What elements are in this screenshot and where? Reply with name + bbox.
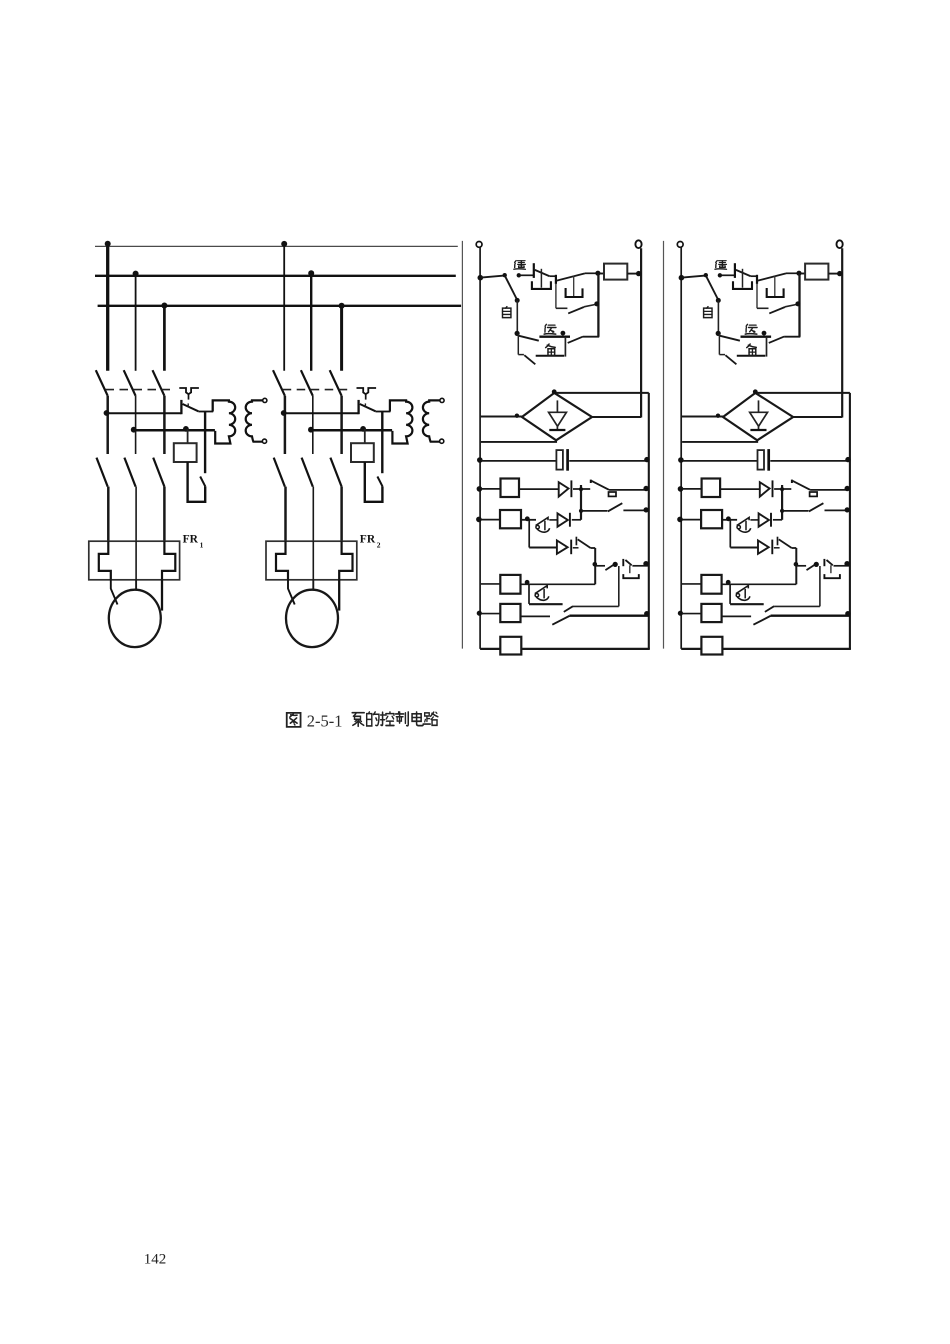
terminal ctrl2 left: [677, 242, 683, 248]
wire horn branch2 out: [774, 605, 820, 607]
button SB2-1 cup: [566, 288, 583, 297]
node cap1 left dot: [477, 457, 483, 463]
button SB3-1 blade: [625, 560, 631, 565]
wire ctrl2 bus595: [795, 548, 797, 584]
operator handle T1 stem: [188, 394, 190, 399]
node row3 ctrl2 right dot: [845, 507, 850, 512]
label caption 电: [412, 712, 423, 726]
button SB1-1 post: [533, 263, 535, 278]
node bus595-2 dot: [794, 562, 799, 567]
wire phase 1 drop to QF2: [283, 246, 285, 370]
wire row5 ctrl2 a: [730, 547, 758, 549]
breaker QF2 linkage dashed: [283, 389, 353, 391]
node ctrl1 coil-in dot: [595, 271, 600, 276]
contactor KM1 pole 1 blade: [97, 458, 108, 487]
wire seal branch2 across: [757, 307, 769, 309]
wire row5 ctrl2 b: [774, 547, 780, 549]
label caption 图: [287, 713, 301, 727]
button SB2-2 cup: [767, 288, 784, 297]
wire ctrl1 to selector: [481, 276, 504, 278]
button SB1-1 blade: [535, 270, 550, 276]
operator handle T1 symbol: [179, 388, 199, 394]
wire row5 ctrl2 down: [729, 520, 731, 548]
contact S2 link tick: [364, 403, 366, 407]
node row6 ctrl1 mid dot: [613, 562, 618, 567]
contact S1 post: [180, 400, 182, 414]
wire motor M2 lead 2: [312, 580, 314, 590]
contact K4-1 blade: [605, 564, 614, 570]
horn HA2-2 body: [736, 586, 748, 594]
wire motor M1 lead 3: [161, 580, 163, 611]
wire row2 ctrl2 b: [720, 488, 760, 490]
contact standby1 bar: [536, 355, 565, 357]
svg-text:FR: FR: [360, 534, 376, 546]
breaker QF1 pole 1 blade: [96, 370, 108, 396]
breaker QF2 pole 2 blade: [301, 370, 313, 396]
wire standby1 down: [517, 334, 519, 355]
button SB1-2 post: [734, 263, 736, 278]
wire selector1 out: [583, 336, 599, 338]
node row2 ctrl2 right dot: [845, 486, 850, 491]
node horn branch2 dot: [726, 580, 731, 585]
wire row3 ctrl2 b: [825, 509, 850, 511]
relay KA4-2 box: [701, 604, 721, 622]
diode VD2-1 triangle: [558, 513, 568, 526]
node ctrl2 rail tap dot: [679, 275, 685, 281]
node row2-2 dot A: [308, 427, 314, 433]
horn HA1-1 mouth curve: [537, 528, 550, 532]
relay FR2 box: [266, 541, 357, 580]
wire seal branch2 down: [756, 284, 758, 308]
transformer T2 primary winding: [390, 400, 412, 443]
node L1-M1 junction dot: [105, 241, 111, 247]
wire ctrl2 right rail lower: [849, 393, 851, 649]
motor M1 circle: [109, 590, 161, 647]
wire row7 ctrl2 a: [682, 613, 701, 615]
wire motor M2 lead 3: [338, 580, 340, 611]
wire row5 ctrl1 a: [529, 547, 557, 549]
svg-text:2: 2: [377, 541, 381, 550]
diode VD2-2 triangle: [759, 513, 769, 526]
label ctrl1 remote 遥: [514, 261, 525, 270]
diode VD3-2 cathode bar: [771, 540, 773, 555]
wire standby2 down: [718, 334, 720, 355]
horn HA2-2 tip circle: [736, 594, 739, 597]
diode VD2-2 cathode bar: [770, 513, 772, 527]
wire motor M1 lead 2: [135, 580, 137, 590]
node cap1 right dot: [644, 457, 649, 462]
label caption 的: [367, 712, 379, 726]
horn HA1-1 diaphragm: [544, 521, 546, 531]
wire row2 ctrl2 d: [810, 489, 849, 491]
wire SB2-2 out: [786, 272, 799, 274]
coil K2 box: [805, 264, 828, 280]
wire horn branch1 across: [529, 603, 563, 605]
wire ctrl2 bus581: [781, 485, 783, 520]
wire seal branch1 to node: [584, 304, 597, 307]
wire horn branch2 down: [729, 584, 731, 604]
wire selector2 join vertical: [766, 338, 768, 357]
contact K4-2 blade: [807, 564, 816, 570]
node row2 ctrl1 right dot: [643, 486, 648, 491]
wire rect2 right to rail: [793, 416, 842, 418]
svg-text:1: 1: [200, 541, 204, 550]
node row2 ctrl1 left dot: [477, 486, 483, 492]
node row7 ctrl1 left dot: [477, 611, 482, 616]
wire ctrl1 left rail: [479, 247, 481, 649]
relay KA1-2 box: [702, 479, 721, 498]
wire ctrl1 to relay coil: [600, 273, 604, 275]
wire KM1 coil lead: [187, 429, 189, 443]
wire S1 output: [198, 411, 213, 413]
coil KM1 box: [174, 443, 197, 462]
node row2-1 dot B: [183, 426, 189, 432]
node row4 ctrl1 tap dot: [525, 516, 530, 521]
button SB1-1 cup: [532, 281, 551, 289]
node row6 ctrl2 mid dot: [814, 562, 819, 567]
node ctrl2 remote contact dot: [718, 273, 722, 277]
wire KM2 coil lead: [364, 429, 366, 443]
capacitor C2 plate+: [758, 450, 765, 470]
terminal ctrl1 right: [635, 240, 641, 248]
wire L3 phase bus: [98, 305, 462, 307]
capacitor C1 plate-: [566, 449, 569, 471]
node row6 ctrl2 right dot: [844, 561, 849, 566]
button SB3-2 stem: [830, 565, 832, 573]
node cap2 right dot: [845, 457, 850, 462]
wire row8 ctrl2 b: [722, 648, 851, 650]
contactor KM2 pole 2 blade: [302, 458, 313, 487]
diode VD2-1 cathode bar: [569, 513, 571, 527]
contact SL1-2 float box: [810, 492, 818, 496]
wire horn branch2 across: [730, 603, 764, 605]
contact S2 post: [357, 400, 359, 414]
wire to T1 primary top: [212, 400, 214, 411]
diode VD1-2 triangle: [760, 482, 770, 496]
node row4 ctrl2 left dot: [677, 517, 683, 523]
node rect2 left dot: [716, 414, 720, 418]
diode VC2 anode line: [758, 400, 760, 429]
node row4 ctrl2 tap dot: [726, 516, 731, 521]
wire rect2 bottom out: [682, 440, 757, 442]
node ctrl2 selector pivot: [704, 273, 708, 277]
svg-text:2-5-1: 2-5-1: [307, 711, 343, 730]
node selector1 branch dot: [515, 331, 520, 336]
wire row7 ctrl1 b: [521, 615, 551, 617]
terminal T1 secondary b: [262, 439, 266, 443]
wire S2 down lead: [381, 412, 383, 474]
horn HA2-1 tip circle: [535, 594, 538, 597]
wire row2 ctrl1 c: [573, 488, 590, 490]
diode VC2 cathode bar: [750, 429, 766, 431]
diode VD3-1 triangle: [557, 541, 568, 554]
wire seal branch1 across: [556, 307, 568, 309]
wire selector2 auto vertical: [717, 300, 719, 333]
terminal T2 secondary a: [440, 398, 444, 402]
wire row5 ctrl1 b: [573, 547, 579, 549]
contact K5-1 blade: [564, 606, 573, 612]
wire row3 ctrl1 b: [623, 509, 648, 511]
wire ctrl2 right rail upper: [841, 248, 843, 417]
wire SB2-1 out: [585, 272, 598, 274]
wire ctrl1 right rail lower: [648, 393, 650, 649]
contact K3-1 post: [575, 537, 577, 546]
contactor KM1 pole 3 blade: [153, 458, 164, 487]
wire row4 ctrl1 a: [481, 519, 500, 521]
wire ctrl2 to selector: [682, 276, 705, 278]
wire row4 ctrl1 c: [549, 519, 557, 521]
wire standby1 elbow: [518, 354, 524, 356]
wire row5 ctrl1 down: [528, 520, 530, 548]
wire phase 2 drop to QF1: [135, 276, 137, 371]
node L2-M1 junction dot: [133, 271, 139, 277]
wire KM2 pole 3 to FR: [340, 487, 343, 542]
wire row8 ctrl1 a: [480, 648, 500, 650]
node ctrl2 selector auto dot: [716, 298, 721, 303]
coil KM2 box: [351, 443, 374, 462]
horn HA1-1 tip circle: [536, 525, 539, 528]
diode VD3-1 cathode bar: [570, 540, 572, 555]
contact SL1-1 post: [590, 480, 592, 483]
horn HA2-1 diaphragm: [543, 589, 545, 599]
rectifier VC1 diamond: [522, 393, 592, 440]
wire rect1 right to rail: [592, 416, 641, 418]
node bus581-2 mid dot: [780, 509, 784, 513]
relay FR2 heater 2: [312, 541, 314, 580]
wire row4 ctrl2 b: [722, 519, 737, 521]
relay KA5-1 box: [500, 637, 521, 655]
wire ctrl1 node B vertical: [597, 273, 599, 337]
wire horn branch1 down: [528, 584, 530, 604]
relay KA5-2 box: [701, 637, 722, 655]
wire KM1 coil return: [188, 462, 206, 502]
node row7 ctrl2 left dot: [678, 611, 683, 616]
relay FR1 heater 3: [162, 541, 175, 580]
node selector2 branch dot: [716, 331, 721, 336]
wire phase 3 drop to QF2: [340, 306, 343, 371]
wire rect2 left feed: [682, 416, 723, 418]
diode VC2 triangle: [750, 412, 768, 426]
wire L1 phase bus: [95, 245, 458, 247]
wire QF2 pole 1 lower: [284, 396, 287, 454]
label ctrl1 standby 备: [546, 344, 556, 355]
diode VD1-1 cathode bar: [570, 480, 572, 497]
relay FR1 heater 1: [99, 541, 111, 580]
contact K6-2 blade: [753, 616, 770, 625]
wire KM2 pole 2 to FR: [312, 487, 314, 542]
wire row1-1: [107, 412, 181, 414]
relay KA2-1 box: [500, 510, 521, 528]
wire seal branch2 to node: [785, 304, 798, 307]
button SB1-2 blade: [736, 270, 751, 276]
wire cap2 row left: [682, 460, 757, 462]
button SB3-1 post: [622, 559, 624, 566]
node seal2 dot: [795, 301, 800, 306]
wire cap1 row right: [569, 460, 648, 462]
svg-text:FR: FR: [183, 534, 199, 546]
wire to T2 primary top: [389, 400, 391, 411]
node run1 dot: [561, 331, 566, 336]
contact K2 seal blade: [769, 307, 785, 313]
wire row1-2: [284, 412, 358, 414]
wire coil K1 to rail: [627, 273, 640, 275]
node bus595-1 dot: [593, 562, 598, 567]
node rect1 top dot: [552, 389, 557, 394]
wire selector2 out: [784, 336, 800, 338]
breaker QF1 pole 3 blade: [153, 370, 165, 396]
button SB2-2 post: [756, 275, 758, 284]
horn HA2-2 mouth curve: [737, 596, 750, 600]
label caption 路: [424, 712, 437, 725]
button SB2-1 blade: [557, 273, 585, 280]
label ctrl1 run 运: [544, 324, 556, 334]
wire row6 ctrl1 a: [595, 565, 605, 567]
wire phase 3 drop to QF1: [163, 306, 166, 371]
wire SB1-1 out: [549, 275, 556, 277]
wire ctrl2 to relay coil: [801, 273, 805, 275]
wire KM2 coil return: [365, 462, 383, 502]
contact SL1-2 blade: [793, 481, 811, 490]
wire QF1 pole 1 lower: [106, 396, 109, 454]
wire selector1 auto vertical: [516, 300, 518, 333]
horn HA1-2 tip circle: [737, 525, 740, 528]
wire box6 ctrl1 b: [521, 583, 596, 585]
wire row4 ctrl2 a: [682, 519, 701, 521]
button SB3-1 cup: [623, 574, 639, 578]
wire row7 ctrl2 b: [722, 615, 752, 617]
button SB3-2 cup: [824, 574, 840, 578]
breaker QF1 linkage dashed: [106, 389, 176, 391]
node bus581-1 top dot: [579, 487, 583, 491]
operator handle T2 symbol: [357, 388, 377, 394]
wire KM1 pole 1 to FR: [107, 487, 110, 542]
label caption 泵: [352, 713, 364, 727]
wire cap1 row left: [481, 460, 556, 462]
wire QF2 pole 2 lower: [312, 396, 314, 454]
horn HA1-2 mouth curve: [738, 528, 751, 532]
relay KA1-1 box: [501, 479, 520, 498]
contact run2 blade: [720, 336, 740, 341]
contact K6-1 blade: [552, 616, 569, 625]
wire cap2 row right: [770, 460, 849, 462]
wire box6 ctrl1 a: [481, 583, 500, 585]
contact S2 blade: [360, 404, 376, 411]
node ctrl1 rail tap dot: [478, 275, 484, 281]
node ctrl1 remote contact dot: [517, 273, 521, 277]
diode VD3-2 triangle: [758, 541, 769, 554]
contact SL2-2 blade: [809, 503, 824, 511]
node ctrl2 coil-in dot: [796, 271, 801, 276]
wire motor M2 lead 1: [288, 580, 295, 605]
wire ctrl2 left rail: [680, 247, 682, 649]
contact S1 blade: [183, 404, 199, 411]
node seal1 dot: [594, 301, 599, 306]
motor M2 circle: [286, 590, 338, 647]
terminal ctrl2 right: [837, 240, 843, 248]
relay FR2 heater 1: [276, 541, 288, 580]
node coil K2 rail dot: [837, 271, 842, 276]
node row7 ctrl1 right dot: [644, 611, 649, 616]
horn HA1-2 diaphragm: [745, 521, 747, 531]
node L3-M1 junction dot: [161, 303, 167, 309]
contactor KM1 pole 2 blade: [124, 458, 135, 487]
wire row2 ctrl2 c: [774, 488, 791, 490]
contactor KM2 pole 1 blade: [274, 458, 285, 487]
wire motor M1 lead 1: [111, 580, 118, 605]
button SB2-2 blade: [758, 273, 786, 280]
wire KM1 pole 2 to FR: [135, 487, 137, 542]
contact run1 bar: [539, 336, 570, 338]
wire phase 1 drop to QF1: [106, 246, 109, 370]
node row2-2 dot B: [360, 426, 366, 432]
wire coil K2 to rail: [828, 273, 841, 275]
wire rect2 top to rail: [757, 392, 850, 394]
wire separator line ctrl2: [663, 241, 665, 649]
node row2 ctrl2 left dot: [678, 486, 684, 492]
wire ctrl1 remote to SB1: [521, 274, 534, 276]
wire row4 ctrl1 b: [521, 519, 536, 521]
node row1-2 dot: [281, 410, 287, 416]
wire row2 ctrl1 d: [609, 489, 648, 491]
wire ctrl2 remote to SB1: [722, 274, 735, 276]
contact K1 seal blade: [568, 307, 584, 313]
wire ctrl1 bus618: [618, 566, 620, 606]
wire box6 ctrl2 b: [722, 583, 797, 585]
wire rect1 left feed: [481, 416, 522, 418]
contact SL1-1 blade: [591, 481, 609, 490]
node row6 ctrl1 right dot: [643, 561, 648, 566]
breaker QF1 pole 2 blade: [124, 370, 136, 396]
wire row4 ctrl1 d: [572, 519, 581, 521]
wire ctrl1 right rail upper: [640, 248, 642, 417]
relay KA3-1 box: [500, 575, 520, 594]
capacitor C1 plate+: [556, 450, 563, 470]
contact S1 link tick: [187, 403, 189, 407]
contact K3-2 post: [777, 537, 779, 546]
wire KM1 pole 3 to FR: [163, 487, 166, 542]
wire L2 phase bus: [95, 275, 456, 277]
wire row2 ctrl2 a: [682, 488, 702, 490]
wire row8 ctrl1 b: [521, 648, 650, 650]
svg-text:142: 142: [144, 1252, 167, 1268]
contact K5-2 blade: [765, 606, 774, 612]
node bus581-1 mid dot: [579, 509, 583, 513]
node run2 dot: [762, 331, 767, 336]
wire QF1 pole 3 lower: [163, 396, 166, 454]
button SB3-2 blade: [827, 560, 833, 565]
diode VD1-2 cathode bar: [772, 480, 774, 497]
contact SA2 selector blade: [706, 276, 718, 300]
wire row2-2: [311, 429, 392, 432]
button SB1-2 cup: [733, 281, 752, 289]
node L1-M2 junction dot: [281, 241, 287, 247]
wire ctrl2 bus618: [819, 566, 821, 606]
button SB3-2 post: [823, 559, 825, 566]
operator handle T2 stem: [365, 394, 367, 399]
label caption 控: [381, 712, 394, 726]
node row2-1 dot A: [131, 427, 137, 433]
wire selector1 join vertical: [564, 338, 566, 357]
node ctrl1 selector auto dot: [515, 298, 520, 303]
node cap2 left dot: [678, 457, 684, 463]
label caption 制: [396, 712, 409, 726]
label ctrl1 auto 自: [502, 307, 510, 318]
wire rect1 top to rail: [556, 392, 649, 394]
node row7 ctrl2 right dot: [845, 611, 850, 616]
wire row2 ctrl1 a: [481, 488, 501, 490]
button SB2-1 stem: [573, 276, 575, 297]
terminal ctrl1 left: [476, 242, 482, 248]
